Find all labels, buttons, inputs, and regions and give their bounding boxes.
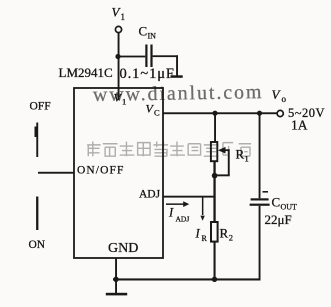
- svg-text:2: 2: [229, 233, 233, 243]
- IC label LM2941C: [59, 65, 113, 80]
- svg-text:OFF: OFF: [30, 101, 51, 113]
- wire ADJ pin: [163, 196, 215, 198]
- svg-text:OUT: OUT: [281, 203, 298, 212]
- wire to C_IN: [118, 56, 145, 58]
- svg-text:C: C: [139, 24, 148, 39]
- svg-text:1: 1: [121, 12, 126, 22]
- svg-text:LM2941C: LM2941C: [59, 65, 113, 80]
- svg-text:V: V: [272, 87, 282, 102]
- svg-text:IN: IN: [148, 32, 157, 41]
- label 5~20V: [288, 106, 325, 120]
- switch ON arrow: [36, 197, 38, 231]
- value label 0.1~1uF: [120, 66, 175, 82]
- wire bottom rail: [113, 278, 261, 280]
- svg-text:ON: ON: [29, 239, 46, 251]
- ground (main): [106, 279, 127, 295]
- svg-text:1A: 1A: [291, 118, 308, 133]
- label 22uF: [265, 212, 292, 227]
- resistor R2: [211, 222, 233, 243]
- wire GND pin to rail: [115, 258, 117, 279]
- pin label VC: [146, 102, 161, 118]
- svg-text:I: I: [195, 227, 201, 241]
- svg-text:R: R: [236, 147, 245, 162]
- pin label V1: [114, 91, 127, 107]
- wire V1 vertical: [118, 33, 120, 100]
- junction GND/rail: [113, 277, 118, 282]
- switch OFF label: [30, 101, 51, 113]
- label 1A: [291, 118, 308, 133]
- junction on V1 wire: [115, 54, 120, 59]
- svg-text:22μF: 22μF: [265, 212, 292, 227]
- switch OFF arrow: [35, 123, 39, 158]
- svg-text:R: R: [202, 234, 208, 243]
- R1 wiper arrow and loop: [215, 147, 230, 176]
- current arrow I_ADJ: [166, 201, 189, 223]
- capacitor C_IN: [139, 24, 157, 68]
- svg-text:1: 1: [245, 154, 249, 164]
- junction output/R1: [212, 111, 217, 116]
- switch pole wire: [38, 172, 75, 174]
- wire C_IN to ground: [153, 55, 178, 75]
- pin label ON/OFF: [77, 165, 125, 177]
- svg-text:GND: GND: [108, 241, 138, 256]
- svg-text:I: I: [168, 206, 174, 220]
- svg-text:ADJ: ADJ: [139, 189, 161, 201]
- wire R2 to rail: [214, 242, 216, 281]
- node V1 input terminal: [112, 5, 126, 33]
- pin label ADJ: [139, 189, 161, 201]
- junction output/COUT: [257, 111, 262, 116]
- pin label GND: [108, 241, 138, 256]
- wire to R1: [214, 113, 216, 142]
- svg-text:ADJ: ADJ: [176, 215, 190, 224]
- svg-text:1: 1: [122, 97, 126, 107]
- svg-text:R: R: [220, 226, 229, 241]
- ground (C_IN): [171, 75, 183, 78]
- wire VC output line: [163, 112, 278, 114]
- svg-text:C: C: [272, 195, 281, 210]
- wire COUT bottom lead: [259, 206, 261, 280]
- resistor R1 (rheostat): [211, 142, 249, 164]
- svg-text:o: o: [282, 94, 287, 104]
- switch ON label: [29, 239, 46, 251]
- svg-text:0.1~1μF: 0.1~1μF: [120, 66, 175, 82]
- svg-text:ON/OFF: ON/OFF: [77, 165, 125, 177]
- current arrow I_R: [195, 197, 208, 243]
- node Vo output terminal: [272, 87, 287, 117]
- junction R1 bottom: [212, 173, 218, 179]
- junction R2/rail: [212, 277, 217, 282]
- op-amp/IC U1 LM2941C box: [74, 88, 163, 258]
- wire COUT top lead: [259, 113, 261, 198]
- capacitor C_OUT: [250, 191, 297, 212]
- svg-text:C: C: [154, 108, 160, 118]
- wire R1 junction to R2: [213, 161, 215, 223]
